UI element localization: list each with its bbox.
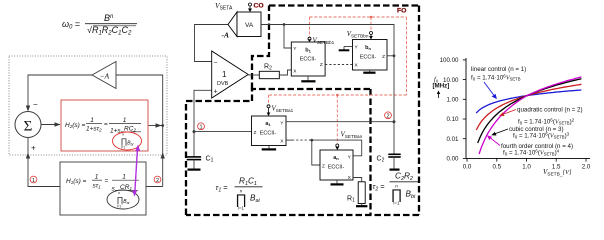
svg-text:ECCII-: ECCII- bbox=[360, 55, 377, 61]
curve linear n=1 bbox=[476, 90, 581, 113]
equation tau2 bbox=[373, 172, 419, 206]
ground at b1 bbox=[307, 76, 309, 81]
svg-text:C2R2: C2R2 bbox=[395, 172, 413, 182]
svg-text:VSETBa1: VSETBa1 bbox=[272, 105, 294, 113]
wire: an X to R1 bbox=[353, 178, 362, 182]
svg-text:R2: R2 bbox=[264, 64, 272, 72]
wire: a1 Y line to node 2 bbox=[286, 121, 394, 123]
svg-text:VSETBan: VSETBan bbox=[341, 131, 363, 139]
curve fourth order n=4 bbox=[479, 77, 581, 154]
svg-text:Bbi: Bbi bbox=[406, 190, 417, 200]
svg-text:1: 1 bbox=[199, 125, 202, 131]
svg-text:ECCII-: ECCII- bbox=[300, 57, 317, 63]
op-amp DVB bbox=[212, 51, 249, 98]
svg-text:a1: a1 bbox=[265, 121, 271, 127]
chart y-axis bbox=[465, 58, 467, 158]
node 2 label (left) bbox=[154, 176, 161, 183]
wire+dashed chain: a1 X to junction bbox=[286, 139, 292, 141]
svg-text:−A: −A bbox=[100, 72, 110, 81]
node 1 label (left) bbox=[30, 176, 37, 183]
svg-text:i=1: i=1 bbox=[238, 206, 245, 211]
svg-text:bn: bn bbox=[365, 45, 371, 51]
dashed outline of CO block (top) bbox=[269, 4, 419, 6]
ECCII block b1 bbox=[291, 42, 325, 76]
red dashed drop to V_SETBan bbox=[336, 95, 338, 144]
svg-text:Z: Z bbox=[254, 130, 257, 136]
summer node bbox=[15, 112, 41, 138]
svg-text:+: + bbox=[214, 89, 218, 96]
wire: -A output to summer top bbox=[28, 75, 92, 108]
terminal V_SETBbn bbox=[370, 32, 373, 35]
svg-text:τ1 =: τ1 = bbox=[216, 183, 229, 193]
svg-text:0.00: 0.00 bbox=[446, 156, 459, 163]
node 2 (middle circuit) bbox=[393, 120, 396, 123]
ground below R1 bbox=[361, 204, 363, 206]
svg-text:1.5: 1.5 bbox=[552, 164, 561, 171]
svg-text:1: 1 bbox=[222, 70, 227, 79]
svg-text:DVB: DVB bbox=[217, 81, 229, 87]
svg-text:C2: C2 bbox=[377, 156, 385, 164]
red dashed FO control bus bbox=[310, 16, 407, 18]
equation omega0 = B^n / sqrt(R1R2C1C2) bbox=[62, 13, 137, 37]
terminal V_SETBb1 bbox=[308, 37, 311, 40]
svg-text:ω0 =: ω0 = bbox=[62, 19, 80, 31]
svg-text:0.10: 0.10 bbox=[446, 116, 459, 123]
svg-text:quadratic control (n = 2): quadratic control (n = 2) bbox=[517, 107, 583, 114]
svg-text:τ2 =: τ2 = bbox=[373, 182, 386, 192]
wire: node 1 to DVB non-inverting input bbox=[194, 90, 212, 131]
svg-text:FO: FO bbox=[397, 8, 406, 15]
svg-text:i=1: i=1 bbox=[117, 205, 122, 209]
wire: node 1 to a1 Z bbox=[194, 131, 252, 133]
wire: bn Z output to right vertical bbox=[387, 55, 394, 57]
purple double arrow linking product terms bbox=[135, 148, 138, 193]
svg-text:C1: C1 bbox=[206, 156, 214, 164]
wire: summer output to H2 bbox=[41, 124, 60, 126]
svg-text:=: = bbox=[105, 178, 109, 185]
svg-text:ECCII-: ECCII- bbox=[328, 165, 345, 171]
svg-text:2: 2 bbox=[156, 178, 159, 184]
wire: junction to an Y bbox=[312, 140, 362, 156]
block H2(s) red box bbox=[61, 100, 148, 151]
ECCII block bn bbox=[353, 40, 388, 71]
wire: node 2 to H1 input bbox=[146, 186, 163, 188]
x axis tick labels bbox=[463, 164, 591, 171]
capacitor C1 bbox=[193, 132, 195, 157]
wire: right feedback vertical bbox=[116, 75, 163, 187]
wire: drop to b1 Y input bbox=[284, 25, 291, 49]
svg-text:1: 1 bbox=[123, 117, 127, 124]
capacitor C2 bbox=[393, 122, 395, 154]
svg-text:f0 = 1.74·106VSETB: f0 = 1.74·106VSETB bbox=[471, 74, 521, 82]
svg-text:1: 1 bbox=[122, 174, 126, 181]
resistor R2 bbox=[259, 71, 279, 78]
svg-text:Σ: Σ bbox=[24, 119, 33, 135]
svg-text:Bai: Bai bbox=[250, 194, 261, 204]
label linear control bbox=[471, 66, 526, 82]
svg-text:Bn: Bn bbox=[104, 13, 114, 23]
wire: H2 output to node 2 bbox=[148, 125, 163, 127]
svg-text:0.01: 0.01 bbox=[446, 136, 459, 143]
block H1(s) box bbox=[60, 162, 146, 215]
svg-text:i=1: i=1 bbox=[393, 201, 400, 206]
node 1 (middle circuit) bbox=[193, 130, 196, 133]
wire: junction down to an Z bbox=[312, 140, 320, 165]
svg-text:ECCII-: ECCII- bbox=[260, 131, 277, 137]
svg-text:Z: Z bbox=[322, 164, 325, 170]
svg-text:0.5: 0.5 bbox=[492, 164, 501, 171]
svg-text:0.0: 0.0 bbox=[463, 164, 472, 171]
svg-text:[MHz]: [MHz] bbox=[433, 83, 450, 90]
label cubic control bbox=[509, 126, 570, 140]
label quadratic control bbox=[517, 107, 583, 126]
svg-text:√R1R2C1C2: √R1R2C1C2 bbox=[87, 25, 132, 37]
svg-text:-A: -A bbox=[222, 31, 230, 40]
svg-text:H1(s) =: H1(s) = bbox=[66, 178, 87, 185]
svg-text:CO: CO bbox=[254, 3, 264, 10]
svg-text:H2(s) =: H2(s) = bbox=[65, 122, 86, 129]
chart x-axis bbox=[466, 157, 590, 159]
ground at bn Y input bbox=[344, 46, 353, 48]
wire: DVB output to R2 bbox=[248, 74, 259, 76]
svg-text:R1C1: R1C1 bbox=[239, 177, 257, 187]
ECCII block a1 bbox=[252, 116, 287, 146]
terminal V_SETBa1 bbox=[267, 105, 270, 108]
curve quadratic n=2 bbox=[476, 84, 581, 130]
resistor R1 bbox=[358, 182, 365, 204]
wire: node 1 feedback to summer plus input bbox=[28, 138, 60, 187]
svg-text:2.0: 2.0 bbox=[582, 164, 591, 171]
red dashed drop to V_SETBa1 bbox=[268, 95, 270, 105]
curve cubic n=3 bbox=[478, 79, 582, 143]
svg-text:n: n bbox=[118, 191, 120, 195]
svg-text:1.0: 1.0 bbox=[522, 164, 531, 171]
red dashed drop to V_SETBb1 bbox=[309, 17, 311, 37]
svg-text:1: 1 bbox=[32, 178, 35, 184]
svg-text:Z: Z bbox=[382, 54, 385, 60]
svg-text:=: = bbox=[104, 121, 108, 128]
ground at bn bottom bbox=[369, 70, 371, 72]
svg-text:linear control (n = 1): linear control (n = 1) bbox=[471, 66, 526, 73]
svg-text:an: an bbox=[333, 155, 339, 161]
red ellipse highlight around product term in H2 bbox=[113, 132, 142, 150]
svg-text:1: 1 bbox=[90, 117, 94, 124]
dashed separator between tau1 and tau2 sections bbox=[369, 89, 371, 215]
svg-text:R1: R1 bbox=[347, 196, 355, 204]
y axis tick labels bbox=[440, 57, 459, 163]
svg-text:1: 1 bbox=[95, 174, 99, 181]
terminal V_SETBan bbox=[336, 144, 339, 147]
svg-text:2: 2 bbox=[386, 114, 389, 120]
svg-text:100.00: 100.00 bbox=[440, 57, 459, 64]
svg-text:+: + bbox=[31, 144, 36, 153]
svg-text:−: − bbox=[214, 60, 218, 67]
svg-text:VA: VA bbox=[245, 22, 254, 29]
svg-text:n: n bbox=[122, 133, 124, 137]
ellipse highlight around product term in H1 bbox=[107, 190, 139, 209]
dotted outer box of block diagram bbox=[9, 56, 167, 155]
svg-text:Z: Z bbox=[320, 62, 323, 68]
svg-text:−: − bbox=[33, 100, 38, 109]
ECCII block an bbox=[320, 150, 353, 180]
wire: VA output line to right vertical bbox=[261, 25, 394, 122]
svg-text:VSETBb1: VSETBb1 bbox=[313, 37, 335, 45]
label fourth order control bbox=[501, 143, 573, 157]
svg-text:1.00: 1.00 bbox=[446, 97, 459, 104]
svg-text:VSETBbn: VSETBbn bbox=[347, 30, 369, 38]
svg-text:VSETA: VSETA bbox=[215, 1, 233, 12]
red dashed drop to V_SETBbn bbox=[370, 17, 372, 31]
amplifier VA bbox=[228, 12, 237, 37]
amplifier -A (left diagram) bbox=[92, 62, 116, 89]
dashed chain b1 Z to bn X bbox=[325, 64, 352, 66]
ground at an bbox=[336, 180, 338, 184]
ground at a1 bbox=[268, 146, 270, 149]
svg-text:f0 = 1.74·106(VSETB)2: f0 = 1.74·106(VSETB)2 bbox=[518, 118, 575, 126]
equation tau1 bbox=[216, 177, 263, 211]
wire: VA output feedback to DVB inverting input bbox=[195, 25, 229, 62]
svg-text:b1: b1 bbox=[305, 48, 311, 54]
wire: R2 to b1 X input bbox=[279, 70, 291, 75]
